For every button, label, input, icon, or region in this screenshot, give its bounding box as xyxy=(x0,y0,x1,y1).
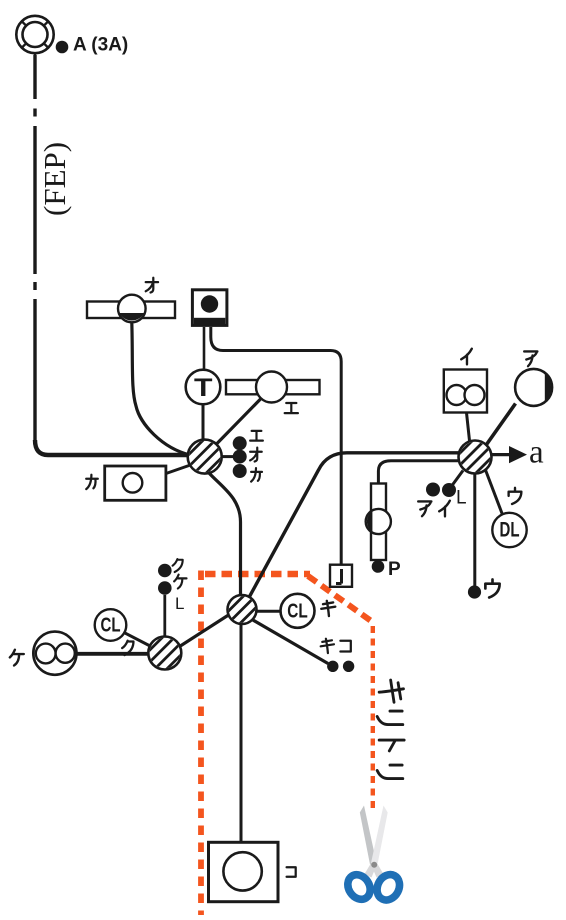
label I (for switch) xyxy=(439,501,450,517)
wire: receptacle I to joint box 2 xyxy=(467,413,470,441)
label E (switch) xyxy=(250,431,263,441)
joint box 4 xyxy=(222,590,262,630)
switches KU KE (2 dots) with L xyxy=(158,564,172,595)
svg-text:P: P xyxy=(388,559,401,580)
joint box 1 xyxy=(180,432,230,482)
joint box 3 xyxy=(140,628,190,678)
receptacle I (box with two circles) xyxy=(444,370,487,413)
svg-text:A (3A): A (3A) xyxy=(73,35,128,56)
svg-text:T: T xyxy=(194,374,213,402)
wire: transformer T to joint box 1 xyxy=(202,405,205,440)
arrow a xyxy=(492,453,510,456)
scissors xyxy=(343,806,404,904)
fluorescent lamp E xyxy=(226,372,320,403)
lamp A (circle with crescent) xyxy=(515,369,552,406)
wire: joint box 2 stub to switches A/I xyxy=(452,471,463,486)
wire: box B right drop, curve right and down to box J xyxy=(211,327,341,565)
box KO (square with circle) xyxy=(209,842,279,901)
label A (for switch) xyxy=(418,501,431,516)
wire: joint box 4 down to box KO xyxy=(240,624,243,842)
switches KI KO (2 dots) xyxy=(327,661,354,672)
wire: lamp E to joint box 1 xyxy=(217,399,262,445)
label KO (switch) xyxy=(340,641,350,652)
fan box KA xyxy=(105,466,166,500)
outdoor lamp with automatic switch A(3A) xyxy=(16,16,53,56)
wire: lamp O drop curve to joint box 1 xyxy=(132,323,190,456)
label U (switch) xyxy=(485,579,499,597)
switches A I (2 dots) with L xyxy=(426,483,456,498)
wire: joint box 4 stub to ceiling CL(ki) xyxy=(257,610,281,613)
label KI xyxy=(321,601,335,616)
label KO xyxy=(287,867,296,876)
svg-text:CL: CL xyxy=(287,601,308,623)
label O (switch) xyxy=(250,448,262,462)
box B (square with dot) xyxy=(192,290,227,326)
box J (small square with mark) xyxy=(330,565,352,587)
label KU xyxy=(122,641,133,655)
label KA (switch) xyxy=(251,468,262,482)
cut line (orange dashed) xyxy=(201,571,374,916)
label KU (switch) xyxy=(173,559,183,572)
wire: lamp KE to joint box 3 xyxy=(77,652,149,656)
fluorescent lamp O xyxy=(87,295,175,323)
wire: joint box 3 to joint box 4 xyxy=(180,615,228,646)
wire: switches KU/KE to joint box 3 xyxy=(163,595,166,637)
kiritori label (rotated) xyxy=(377,680,404,779)
wire: fan box KA to joint box 1 xyxy=(166,466,189,474)
wire: joint box 2 down to switch U xyxy=(473,474,476,586)
svg-text:CL: CL xyxy=(101,615,121,637)
label U xyxy=(509,488,522,504)
wire: joint box 2 to downlight DL xyxy=(486,470,504,516)
label KE (switch) xyxy=(174,575,186,589)
label E xyxy=(285,403,298,413)
lamp P (vertical fluorescent with pull switch) xyxy=(366,484,391,561)
switch U (dot) xyxy=(468,585,481,598)
label KI (switch) xyxy=(321,639,334,653)
svg-text:(FEP): (FEP) xyxy=(37,142,72,216)
lamp KE (circle with two circles) xyxy=(33,632,76,675)
wire: lamp P to joint box 2 xyxy=(378,461,459,484)
label A xyxy=(524,351,537,366)
wire: joint box 1 down to joint box 4 xyxy=(209,473,241,596)
switches E O KA (3 dots) xyxy=(233,436,247,478)
svg-text:DL: DL xyxy=(500,519,520,542)
svg-text:a: a xyxy=(529,435,544,471)
transformer T xyxy=(186,370,221,405)
label KE xyxy=(10,650,24,666)
label I xyxy=(461,349,472,365)
svg-text:L: L xyxy=(456,488,467,509)
wire: joint box 4 up to joint box 2 (long diagonal + horizontal) xyxy=(249,453,459,598)
wire: joint box 4 to switches KI/KO xyxy=(252,620,328,664)
wire: box B left drop to transformer T xyxy=(203,327,206,370)
svg-text:L: L xyxy=(175,594,184,613)
downlight DL xyxy=(492,513,526,547)
ceiling CL (ku) xyxy=(95,609,127,641)
joint box 2 xyxy=(450,431,500,481)
wire: FEP chain line (underground feed) xyxy=(33,55,36,443)
dot of automatic switch xyxy=(56,41,69,54)
label O xyxy=(146,278,158,293)
wire: joint box 1 stub to switches E/O/KA xyxy=(222,455,234,458)
ceiling CL (ki) xyxy=(281,594,315,628)
wire: lamp A to joint box 2 xyxy=(487,404,516,445)
label KA xyxy=(86,475,98,489)
wire: ceiling CL(ku) to joint box 3 xyxy=(124,633,153,648)
